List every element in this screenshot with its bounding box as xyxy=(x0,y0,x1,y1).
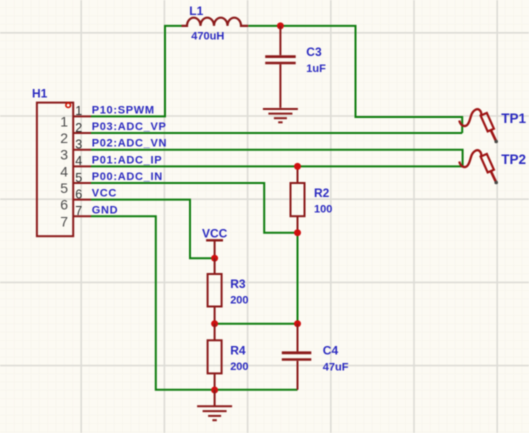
svg-text:TP2: TP2 xyxy=(501,152,526,167)
svg-text:R2: R2 xyxy=(314,186,330,200)
svg-text:P02:ADC_VN: P02:ADC_VN xyxy=(92,138,167,150)
junction dot C4 top xyxy=(294,320,301,327)
svg-text:6: 6 xyxy=(75,187,82,201)
svg-text:5: 5 xyxy=(75,171,82,185)
svg-text:P00:ADC_IN: P00:ADC_IN xyxy=(92,171,163,183)
svg-text:P10:SPWM: P10:SPWM xyxy=(92,104,155,116)
svg-text:5: 5 xyxy=(60,180,68,196)
junction dot R3 bottom xyxy=(211,320,218,327)
svg-text:C4: C4 xyxy=(323,343,339,357)
net label GND xyxy=(92,204,119,216)
svg-text:3: 3 xyxy=(60,147,68,163)
svg-text:100: 100 xyxy=(314,203,332,215)
svg-text:2: 2 xyxy=(60,130,68,146)
test point TP2 xyxy=(459,150,526,184)
svg-text:1uF: 1uF xyxy=(306,63,326,75)
svg-text:1: 1 xyxy=(75,104,82,118)
svg-text:47uF: 47uF xyxy=(323,361,349,373)
junction dot L1/C3 xyxy=(277,22,284,29)
resistor R3 xyxy=(208,258,249,324)
net label P02:ADC_VN xyxy=(92,138,167,150)
svg-text:200: 200 xyxy=(230,295,248,307)
svg-text:L1: L1 xyxy=(189,4,203,18)
pin 5 xyxy=(60,171,91,196)
svg-text:C3: C3 xyxy=(306,45,322,59)
wire R3 bottom to C4 top xyxy=(215,323,298,325)
svg-text:VCC: VCC xyxy=(92,188,117,200)
test point TP1 xyxy=(459,109,526,143)
svg-text:1: 1 xyxy=(60,113,68,129)
svg-text:R3: R3 xyxy=(230,277,246,291)
wire pin6 VCC xyxy=(91,200,215,259)
svg-text:P03:ADC_VP: P03:ADC_VP xyxy=(92,121,167,133)
wire pin5 ADC_IN to R2 bottom xyxy=(91,183,298,233)
resistor R2 xyxy=(291,166,333,232)
capacitor C3 xyxy=(265,26,326,108)
svg-text:7: 7 xyxy=(60,213,68,229)
wire pin7 GND to bottom rail xyxy=(91,216,298,389)
net label P10:SPWM xyxy=(92,104,155,116)
net label P03:ADC_VP xyxy=(92,121,167,133)
svg-text:H1: H1 xyxy=(32,87,48,101)
wire L1 out to C3 junction and down to TP1 xyxy=(248,26,462,133)
svg-text:7: 7 xyxy=(75,204,82,218)
pin 3 xyxy=(60,138,91,163)
connector H1 xyxy=(32,87,73,237)
svg-text:P01:ADC_IP: P01:ADC_IP xyxy=(92,154,163,166)
pin 6 xyxy=(60,187,91,212)
svg-text:470uH: 470uH xyxy=(191,31,224,43)
wire pin1 SPWM to L1 xyxy=(91,26,182,117)
wire pin4 ADC_IP xyxy=(91,165,463,167)
junction dot R2 top xyxy=(294,163,301,170)
svg-text:2: 2 xyxy=(75,121,82,135)
junction dot R2 bottom xyxy=(294,229,301,236)
net label P01:ADC_IP xyxy=(92,154,163,166)
wire R2 bottom to C4 junction xyxy=(297,233,299,324)
svg-text:4: 4 xyxy=(60,163,68,179)
svg-text:GND: GND xyxy=(92,204,119,216)
capacitor C4 xyxy=(282,324,349,390)
net label VCC xyxy=(92,188,117,200)
svg-text:4: 4 xyxy=(75,154,82,168)
svg-text:TP1: TP1 xyxy=(501,111,526,126)
svg-text:6: 6 xyxy=(60,197,68,213)
svg-text:VCC: VCC xyxy=(202,226,228,240)
ground below R4 xyxy=(197,390,232,420)
VCC power flag xyxy=(202,226,228,258)
svg-text:3: 3 xyxy=(75,138,82,152)
junction dot R4 bottom xyxy=(211,387,218,394)
svg-text:R4: R4 xyxy=(230,343,246,357)
pin 1 xyxy=(60,104,91,129)
resistor R4 xyxy=(208,324,249,390)
pin 7 xyxy=(60,204,91,229)
inductor L1 xyxy=(182,18,249,26)
svg-text:200: 200 xyxy=(230,361,248,373)
junction dot VCC xyxy=(211,255,218,262)
pin 2 xyxy=(60,121,91,146)
wire pin2 ADC_VP to TP1 xyxy=(91,132,462,134)
net label P00:ADC_IN xyxy=(92,171,163,183)
wire pin3 ADC_VN to TP2 xyxy=(91,150,463,167)
ground below C3 xyxy=(263,109,298,122)
pin 4 xyxy=(60,154,91,179)
